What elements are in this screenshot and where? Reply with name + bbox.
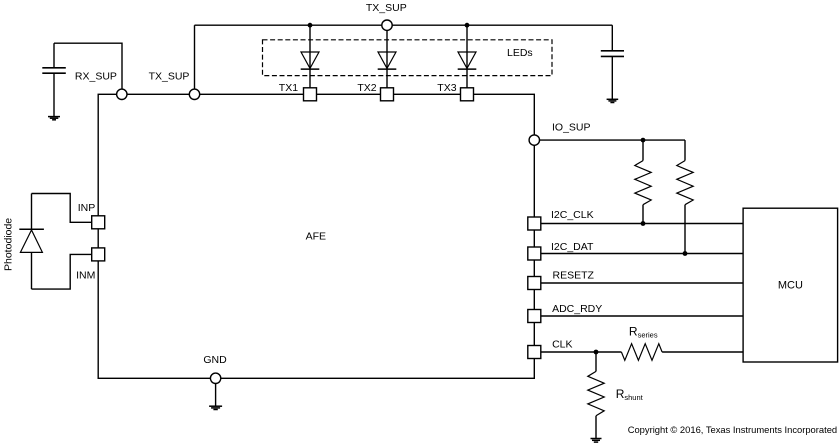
pin I2C_CLK	[528, 217, 541, 230]
MCU block U2	[743, 208, 838, 362]
ground (below GND terminal)	[209, 406, 222, 409]
resistor Rshunt top lead	[595, 352, 597, 371]
svg-text:AFE: AFE	[306, 230, 326, 242]
capacitor C1	[42, 68, 66, 73]
svg-text:Rshunt: Rshunt	[616, 387, 644, 402]
wire TX_SUP terminal to rail	[194, 25, 196, 89]
wire RESETZ to MCU	[541, 282, 743, 284]
resistor R2 (pullup I2C_DAT)	[677, 161, 693, 205]
junction CLK / Rshunt	[594, 350, 599, 355]
svg-text:I2C_CLK: I2C_CLK	[551, 209, 594, 221]
terminal TX_SUP (top rail)	[382, 20, 392, 30]
resistor Rshunt bottom lead	[595, 416, 597, 438]
junction on rail at TX3	[465, 23, 470, 28]
ground (below Rshunt)	[591, 439, 602, 443]
LEDs dashed enclosure	[263, 40, 553, 76]
junction R1 / I2C_CLK	[641, 221, 646, 226]
capacitor C1 bottom lead	[53, 73, 55, 116]
capacitor C1 top lead	[53, 43, 55, 68]
AFE block U1	[98, 94, 534, 378]
pin INM	[92, 248, 105, 261]
svg-text:GND: GND	[203, 354, 227, 366]
svg-text:CLK: CLK	[552, 339, 572, 351]
wire I2C_CLK to MCU	[541, 223, 743, 225]
wire CLK to Rseries	[541, 351, 622, 353]
LED D1	[301, 52, 320, 69]
LED D2	[378, 52, 397, 69]
resistor R1 (pullup I2C_CLK)	[635, 161, 651, 205]
pin ADC_RDY	[528, 310, 541, 323]
pin TX3	[461, 88, 474, 101]
wire TX_SUP top rail	[195, 24, 613, 26]
photodiode D4 anode lead	[31, 252, 33, 289]
svg-text:Photodiode: Photodiode	[3, 218, 15, 271]
wire IO_SUP to pullups	[540, 139, 686, 141]
svg-text:TX3: TX3	[437, 82, 456, 94]
svg-text:TX_SUP: TX_SUP	[149, 71, 190, 83]
terminal GND	[210, 373, 220, 383]
pin I2C_DAT	[528, 247, 541, 260]
svg-text:I2C_DAT: I2C_DAT	[551, 241, 594, 253]
capacitor C2 top lead	[611, 25, 613, 51]
resistor R1 bottom lead	[642, 205, 644, 224]
svg-text:TX1: TX1	[279, 82, 298, 94]
pin CLK	[528, 346, 541, 359]
terminal TX_SUP (AFE edge)	[189, 89, 199, 99]
photodiode D4 cathode lead	[31, 194, 33, 230]
terminal RX_SUP	[117, 89, 127, 99]
svg-text:Rseries: Rseries	[629, 324, 658, 339]
svg-text:IO_SUP: IO_SUP	[552, 121, 591, 133]
junction on rail at TX1	[308, 23, 313, 28]
resistor R1 top lead	[642, 140, 644, 161]
wire LED column TX2	[386, 25, 388, 88]
wire LED column TX1	[309, 25, 311, 88]
junction R2 / I2C_DAT	[683, 251, 688, 256]
ground (below C1)	[48, 117, 60, 120]
svg-text:RESETZ: RESETZ	[553, 270, 595, 282]
resistor R2 top lead	[684, 140, 686, 161]
resistor R2 bottom lead	[684, 205, 686, 254]
pin TX2	[381, 88, 394, 101]
pin RESETZ	[528, 277, 541, 290]
ground (below C2)	[607, 99, 619, 102]
wire photodiode cathode to INP	[32, 194, 92, 223]
LED D3	[458, 52, 477, 69]
capacitor C2 bottom lead	[611, 56, 613, 99]
svg-text:RX_SUP: RX_SUP	[75, 71, 117, 83]
svg-text:MCU: MCU	[778, 279, 803, 291]
svg-text:ADC_RDY: ADC_RDY	[552, 303, 602, 315]
svg-text:INM: INM	[76, 270, 95, 282]
svg-text:TX2: TX2	[357, 82, 376, 94]
resistor Rseries	[621, 344, 662, 361]
pin INP	[92, 216, 105, 229]
pin TX1	[304, 88, 317, 101]
svg-text:Copyright © 2016, Texas Instru: Copyright © 2016, Texas Instruments Inco…	[628, 424, 837, 435]
junction IO_SUP / R1	[641, 138, 646, 143]
wire photodiode anode to INM	[32, 254, 92, 289]
resistor Rshunt	[588, 371, 604, 415]
svg-text:LEDs: LEDs	[507, 47, 533, 59]
wire GND terminal to ground	[215, 384, 217, 406]
svg-text:TX_SUP: TX_SUP	[366, 2, 407, 14]
photodiode D4	[19, 229, 44, 252]
capacitor C2	[601, 51, 624, 57]
wire I2C_DAT to MCU	[541, 253, 743, 255]
wire Rseries to MCU	[662, 351, 743, 353]
svg-text:INP: INP	[78, 202, 96, 214]
wire cap C1 to RX_SUP	[54, 43, 122, 89]
terminal IO_SUP	[529, 135, 539, 145]
wire LED column TX3	[466, 25, 468, 88]
wire ADC_RDY to MCU	[541, 315, 743, 317]
